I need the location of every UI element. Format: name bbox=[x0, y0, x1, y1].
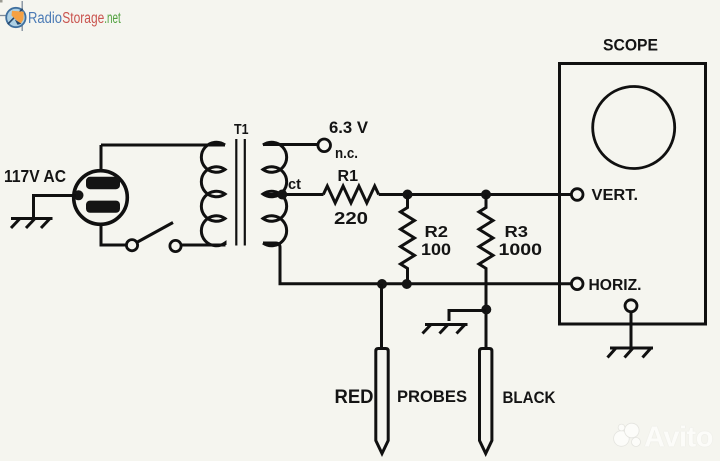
svg-text:1000: 1000 bbox=[499, 240, 543, 259]
svg-text:n.c.: n.c. bbox=[335, 145, 358, 162]
probe BLACK body bbox=[480, 349, 492, 454]
watermark Avito bbox=[614, 422, 713, 454]
svg-text:.net: .net bbox=[104, 10, 121, 27]
scope CRT screen bbox=[593, 87, 675, 169]
svg-text:6.3 V: 6.3 V bbox=[329, 118, 369, 137]
svg-text:R2: R2 bbox=[425, 224, 449, 241]
svg-text:100: 100 bbox=[421, 240, 451, 259]
node R3 top bbox=[481, 190, 491, 200]
logo RadioStorage.net icon bbox=[0, 1, 26, 31]
svg-text:Radio: Radio bbox=[28, 10, 62, 27]
transformer T1 primary winding bbox=[201, 142, 225, 246]
resistor R1 bbox=[323, 186, 378, 203]
scope box bbox=[560, 64, 706, 325]
node R3 bottom / BLACK junction bbox=[481, 305, 491, 315]
svg-text:HORIZ.: HORIZ. bbox=[589, 277, 642, 294]
switch S1 arm bbox=[138, 223, 174, 243]
terminal HORIZ bbox=[571, 278, 583, 290]
wire elbow to ground bbox=[449, 311, 486, 322]
terminal VERT bbox=[571, 189, 583, 201]
svg-text:PROBES: PROBES bbox=[397, 387, 467, 406]
svg-text:ct: ct bbox=[288, 176, 301, 193]
node R2 bottom bbox=[402, 279, 412, 289]
wire scope ground drop bbox=[630, 312, 633, 348]
probe RED body bbox=[376, 349, 388, 454]
wire center tap to R1 bbox=[263, 193, 324, 196]
svg-text:R1: R1 bbox=[338, 168, 359, 185]
svg-text:Avito: Avito bbox=[644, 422, 713, 454]
wire secondary top to n.c. terminal bbox=[263, 143, 318, 146]
resistor R3 bbox=[479, 195, 493, 311]
terminal n.c. bbox=[318, 139, 331, 152]
node R2 top bbox=[403, 190, 413, 200]
svg-text:VERT.: VERT. bbox=[592, 187, 639, 204]
wire BLACK probe drop bbox=[485, 314, 488, 349]
svg-text:T1: T1 bbox=[234, 121, 249, 138]
resistor R2 bbox=[401, 195, 415, 285]
wire R1 to VERT bbox=[379, 193, 572, 196]
wire plug top stub bbox=[100, 145, 103, 171]
transformer T1 secondary winding bbox=[263, 142, 287, 246]
wire switch to T1 bbox=[182, 244, 226, 247]
switch S1 contact right bbox=[170, 240, 181, 251]
AC plug P1 bbox=[74, 171, 128, 225]
switch S1 contact left bbox=[126, 240, 137, 251]
transformer T1 core bbox=[236, 139, 245, 246]
logo text RadioStorage.net bbox=[28, 10, 121, 27]
terminal scope ground bbox=[625, 300, 637, 312]
ground G3 bbox=[608, 348, 654, 358]
wire RED probe drop bbox=[380, 284, 383, 349]
svg-text:SCOPE: SCOPE bbox=[603, 37, 658, 55]
node RED probe junction bbox=[377, 279, 387, 289]
ground G1 bbox=[11, 219, 53, 229]
wire top from plug to T1 primary bbox=[101, 144, 225, 147]
wire plug bottom to switch bbox=[101, 225, 126, 245]
svg-text:220: 220 bbox=[334, 208, 368, 228]
ground G2 bbox=[423, 325, 468, 334]
svg-text:RED: RED bbox=[335, 387, 374, 408]
wire 117V feed bbox=[34, 196, 77, 219]
node ct bbox=[277, 190, 287, 200]
svg-text:117V AC: 117V AC bbox=[4, 166, 66, 186]
wire secondary bottom to HORIZ bbox=[263, 243, 571, 284]
svg-text:Storage: Storage bbox=[62, 10, 104, 27]
svg-text:BLACK: BLACK bbox=[503, 388, 557, 407]
svg-text:R3: R3 bbox=[505, 224, 529, 241]
